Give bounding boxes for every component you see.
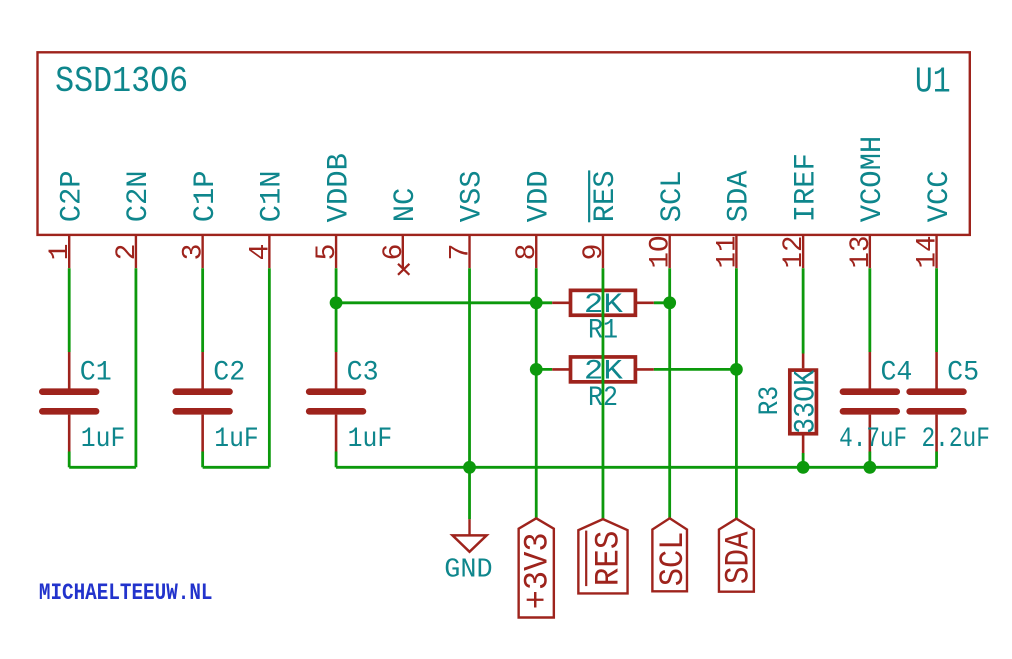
svg-text:VSS: VSS bbox=[456, 170, 490, 222]
wire pin13 to C4 top bbox=[868, 268, 871, 352]
svg-text:U1: U1 bbox=[915, 62, 951, 103]
svg-text:SDA: SDA bbox=[720, 531, 758, 584]
wire pin9 RES down to RES flag (passes over R1/R2) bbox=[602, 268, 605, 519]
resistor R1 bbox=[552, 301, 570, 304]
wire pin14 to C5 top bbox=[935, 268, 938, 352]
svg-text:12: 12 bbox=[779, 236, 810, 269]
svg-text:13: 13 bbox=[846, 236, 877, 269]
svg-text:C1P: C1P bbox=[189, 170, 223, 222]
svg-text:VCOMH: VCOMH bbox=[856, 136, 890, 223]
svg-text:1: 1 bbox=[45, 244, 76, 261]
capacitor C5 bbox=[935, 352, 938, 389]
svg-text:4.7uF: 4.7uF bbox=[839, 424, 907, 455]
junction VDD/R1 left bbox=[530, 296, 543, 309]
svg-text:SDA: SDA bbox=[723, 170, 757, 222]
pin 9 (RES) stub bbox=[602, 235, 604, 268]
pin 9 name overline bbox=[588, 170, 590, 222]
wire C2 bottom stub bbox=[201, 452, 204, 468]
wire pin7 VSS down to GND bbox=[468, 268, 471, 519]
wire pin8 VDD down to +3V3 flag bbox=[535, 268, 538, 518]
capacitor C4 bbox=[869, 352, 872, 389]
svg-text:RES: RES bbox=[591, 531, 629, 587]
IC U1 (SSD1306) body bbox=[38, 52, 970, 235]
capacitor C1 bbox=[68, 352, 71, 389]
svg-text:1uF: 1uF bbox=[348, 424, 393, 455]
junction VSS/bus bbox=[463, 461, 476, 474]
wire VDDB to VDD (horizontal, y=302.8) bbox=[336, 301, 536, 304]
svg-text:11: 11 bbox=[712, 236, 743, 269]
svg-text:8: 8 bbox=[512, 244, 543, 261]
wire pin11 SDA down to SDA flag bbox=[735, 268, 738, 519]
wire ground bus (horizontal, y=467.3) bbox=[336, 466, 936, 469]
pin 3 (C1P) stub bbox=[201, 235, 203, 268]
wire pin10 SCL down to SCL flag bbox=[668, 268, 671, 518]
svg-text:C1N: C1N bbox=[256, 170, 290, 222]
svg-text:33OK: 33OK bbox=[789, 370, 823, 434]
svg-text:C2N: C2N bbox=[122, 170, 156, 222]
junction SCL/R1 right bbox=[663, 296, 676, 309]
pin 11 (SDA) stub bbox=[735, 235, 737, 268]
wire R3 bottom to bus bbox=[802, 453, 805, 467]
svg-text:1uF: 1uF bbox=[214, 424, 258, 455]
svg-text:R3: R3 bbox=[755, 386, 786, 416]
pin 8 (VDD) stub bbox=[535, 235, 537, 268]
svg-text:IREF: IREF bbox=[789, 153, 823, 222]
pin 13 (VCOMH) stub bbox=[869, 235, 871, 268]
junction VDD/R2 left bbox=[530, 363, 543, 376]
RES flag overline bbox=[585, 531, 587, 587]
svg-text:4: 4 bbox=[245, 244, 276, 261]
svg-text:1uF: 1uF bbox=[81, 424, 126, 455]
svg-text:9: 9 bbox=[579, 244, 610, 261]
net flag RES bbox=[578, 519, 627, 593]
ground symbol bbox=[468, 519, 470, 535]
wire C3 bottom stub bbox=[335, 452, 338, 468]
svg-text:MICHAELTEEUW.NL: MICHAELTEEUW.NL bbox=[39, 581, 213, 607]
svg-text:NC: NC bbox=[389, 188, 423, 223]
svg-text:6: 6 bbox=[379, 244, 410, 261]
svg-text:SCL: SCL bbox=[656, 170, 690, 222]
no-connect X on pin 6 bbox=[398, 264, 409, 275]
wire pin2 down bbox=[135, 268, 138, 467]
svg-text:7: 7 bbox=[446, 244, 477, 261]
wire C1 bottom to pin2 (horizontal) bbox=[69, 466, 136, 469]
wire pin4 down bbox=[268, 268, 271, 467]
wire R1 left gap bbox=[536, 301, 552, 304]
resistor R2 bbox=[552, 368, 570, 371]
pin 2 (C2N) stub bbox=[135, 235, 137, 268]
wire pin1 to C1 top bbox=[68, 268, 71, 352]
wire C4 bottom to bus bbox=[868, 452, 871, 468]
pin 5 (VDDB) stub bbox=[335, 235, 337, 268]
svg-text:14: 14 bbox=[913, 236, 944, 269]
svg-text:C5: C5 bbox=[947, 357, 979, 388]
svg-text:VDDB: VDDB bbox=[322, 153, 356, 222]
pin 7 (VSS) stub bbox=[468, 235, 470, 268]
svg-text:2: 2 bbox=[112, 244, 143, 261]
svg-text:RES: RES bbox=[589, 170, 623, 222]
wire pin5 to C3 top bbox=[335, 268, 338, 352]
svg-text:SSD13O6: SSD13O6 bbox=[55, 61, 188, 102]
junction C4/bus bbox=[863, 461, 876, 474]
svg-text:GND: GND bbox=[444, 556, 492, 586]
resistor R3 bbox=[802, 354, 805, 369]
svg-text:VCC: VCC bbox=[923, 170, 957, 222]
wire C1 bottom stub bbox=[68, 452, 71, 468]
pin 6 (NC) stub bbox=[402, 235, 404, 268]
pin 10 (SCL) stub bbox=[668, 235, 670, 268]
wire R1 right to SCL net bbox=[654, 301, 670, 304]
svg-text:C4: C4 bbox=[880, 357, 912, 388]
pin 14 (VCC) stub bbox=[935, 235, 937, 268]
svg-text:VDD: VDD bbox=[522, 170, 556, 222]
svg-text:3: 3 bbox=[179, 244, 210, 261]
svg-text:2.2uF: 2.2uF bbox=[921, 424, 990, 455]
svg-text:C2: C2 bbox=[213, 357, 245, 388]
junction R3/bus bbox=[797, 461, 810, 474]
capacitor C2 bbox=[201, 352, 204, 389]
junction VDDB/wire bbox=[330, 296, 343, 309]
svg-text:C2P: C2P bbox=[55, 170, 89, 222]
svg-text:C3: C3 bbox=[347, 357, 379, 388]
svg-text:C1: C1 bbox=[80, 357, 112, 388]
wire R2 left gap bbox=[536, 368, 552, 371]
svg-text:1O: 1O bbox=[646, 236, 677, 269]
capacitor C3 bbox=[335, 352, 338, 389]
junction SDA/R2 right bbox=[730, 363, 743, 376]
wire R2 right to SDA net bbox=[654, 368, 737, 371]
wire pin12 to R3 top bbox=[802, 268, 805, 353]
svg-text:SCL: SCL bbox=[655, 532, 693, 587]
pin 12 (IREF) stub bbox=[802, 235, 804, 268]
wire pin3 to C2 top bbox=[201, 268, 204, 352]
net flag SCL bbox=[652, 518, 687, 591]
pin 1 (C2P) stub bbox=[68, 235, 70, 268]
svg-text:+3V3: +3V3 bbox=[519, 532, 557, 609]
svg-text:5: 5 bbox=[312, 244, 343, 261]
pin 4 (C1N) stub bbox=[268, 235, 270, 268]
net flag SDA bbox=[719, 519, 754, 592]
wire C2 bottom to pin4 (horizontal) bbox=[203, 466, 270, 469]
net flag +3V3 bbox=[519, 518, 554, 617]
wire C5 bottom to bus bbox=[935, 452, 938, 468]
